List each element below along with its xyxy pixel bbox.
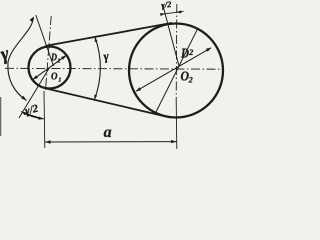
svg-text:1: 1 [57, 58, 60, 65]
svg-text:O: O [51, 71, 58, 83]
svg-text:a: a [104, 124, 112, 141]
svg-text:γ/2: γ/2 [161, 0, 173, 10]
svg-text:1: 1 [58, 77, 61, 84]
svg-text:2: 2 [188, 48, 193, 57]
svg-text:D: D [50, 53, 57, 64]
svg-text:2: 2 [188, 76, 193, 85]
svg-text:D: D [180, 47, 189, 62]
